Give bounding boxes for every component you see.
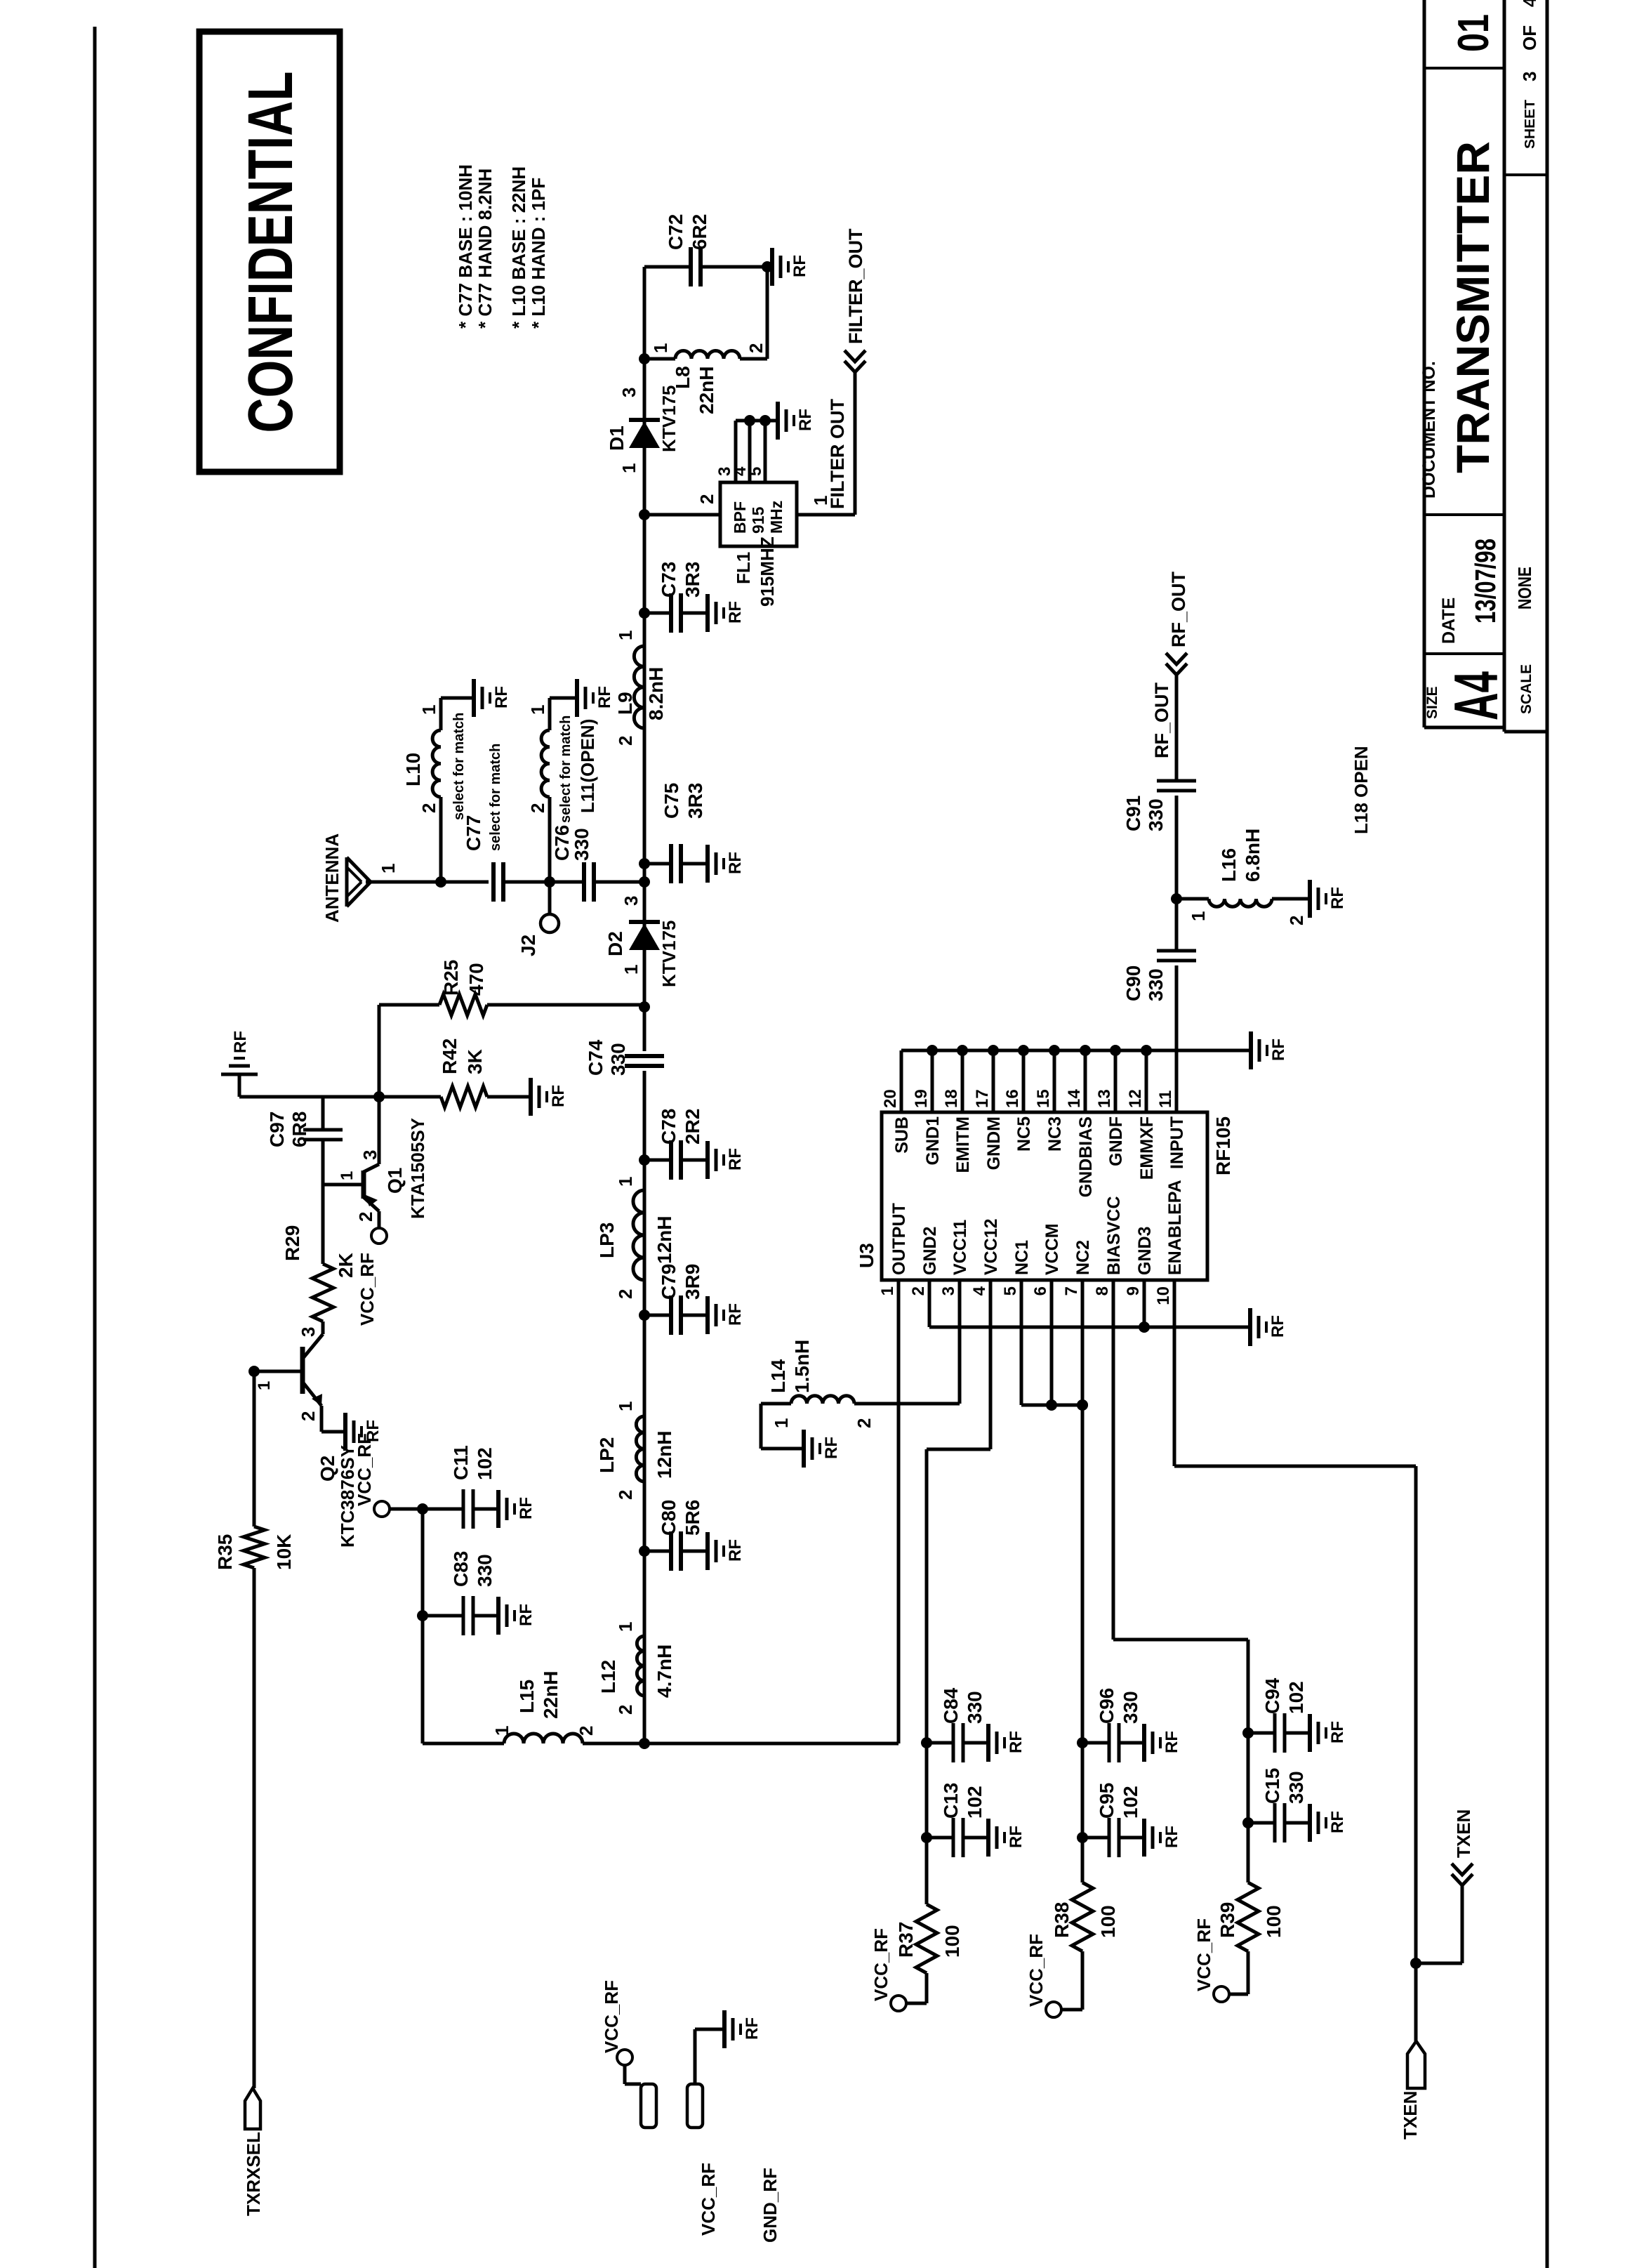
U3 pin 17 GNDM — [992, 1050, 995, 1112]
CONFIDENTIAL stamp box — [199, 32, 340, 472]
svg-text:2: 2 — [615, 1705, 636, 1715]
svg-text:L9: L9 — [614, 692, 636, 715]
svg-text:22nH: 22nH — [540, 1671, 562, 1719]
svg-text:915: 915 — [749, 506, 767, 534]
capacitor C97 6R8 series — [321, 1097, 325, 1130]
svg-text:1: 1 — [771, 1418, 792, 1428]
svg-text:C13: C13 — [940, 1783, 962, 1819]
inductor L11 OPEN select for match — [541, 730, 550, 797]
svg-text:RF: RF — [517, 1604, 536, 1626]
svg-text:C94: C94 — [1261, 1677, 1283, 1714]
svg-text:6R8: 6R8 — [289, 1112, 310, 1147]
svg-text:CONFIDENTIAL: CONFIDENTIAL — [236, 72, 306, 433]
power VCC_RF bead — [617, 2050, 632, 2065]
svg-text:A4: A4 — [1441, 671, 1511, 720]
svg-text:3: 3 — [1519, 72, 1540, 81]
svg-text:330: 330 — [607, 1043, 629, 1076]
inductor L15 22nH — [423, 1742, 504, 1746]
wire ENABLEPA pin10 to TXEN — [1174, 1465, 1416, 1468]
wire INPUT pin11 to RF_OUT — [1175, 965, 1179, 1112]
node L16 tap — [1171, 893, 1182, 904]
svg-text:BPF: BPF — [731, 501, 749, 534]
svg-text:6R2: 6R2 — [689, 214, 710, 250]
svg-text:12nH: 12nH — [654, 1431, 675, 1479]
svg-text:10K: 10K — [273, 1534, 295, 1570]
svg-text:VCC_RF: VCC_RF — [1193, 1918, 1214, 1991]
svg-text:C79: C79 — [658, 1264, 679, 1300]
svg-text:RF: RF — [1328, 887, 1347, 909]
inductor L9 8.2nH — [634, 646, 644, 728]
svg-text:GNDM: GNDM — [984, 1116, 1004, 1170]
net label TXEN — [1452, 1874, 1473, 1885]
svg-text:1: 1 — [491, 1726, 512, 1736]
resistor R29 2K — [312, 1264, 333, 1321]
svg-text:NC2: NC2 — [1073, 1240, 1093, 1275]
svg-text:VCC_RF: VCC_RF — [357, 1253, 378, 1326]
svg-text:TRANSMITTER: TRANSMITTER — [1447, 141, 1499, 473]
svg-text:RF_OUT: RF_OUT — [1168, 571, 1189, 647]
svg-text:INPUT: INPUT — [1167, 1116, 1187, 1169]
svg-text:RF: RF — [726, 1148, 745, 1171]
antenna symbol — [345, 857, 349, 906]
resistor R25 470 — [487, 1003, 644, 1007]
U3 pin 4 VCC12 — [989, 1280, 993, 1449]
svg-text:RF: RF — [595, 686, 614, 708]
svg-text:12nH: 12nH — [654, 1216, 675, 1264]
svg-text:RF: RF — [726, 1303, 745, 1326]
svg-text:GND_RF: GND_RF — [760, 2168, 781, 2243]
svg-text:15: 15 — [1034, 1089, 1053, 1108]
svg-text:11: 11 — [1156, 1090, 1175, 1108]
svg-text:3: 3 — [939, 1286, 958, 1295]
wire bias corner link y540 — [378, 1005, 381, 1164]
svg-text:5: 5 — [1001, 1286, 1020, 1295]
capacitor C11 102 — [423, 1508, 463, 1511]
svg-text:2: 2 — [527, 803, 548, 813]
svg-text:4: 4 — [970, 1286, 989, 1295]
svg-text:R29: R29 — [281, 1225, 303, 1261]
svg-text:R39: R39 — [1216, 1902, 1238, 1938]
node L10 tap — [435, 876, 446, 888]
svg-text:2: 2 — [576, 1726, 597, 1736]
svg-text:1: 1 — [618, 463, 639, 473]
capacitor C15 330 — [1242, 1817, 1254, 1828]
svg-text:5R6: 5R6 — [682, 1500, 703, 1536]
capacitor C78 shunt — [639, 1154, 650, 1166]
svg-text:KTA1505SY: KTA1505SY — [407, 1118, 428, 1219]
svg-text:2: 2 — [745, 343, 767, 353]
svg-text:7: 7 — [1062, 1286, 1081, 1295]
svg-text:1: 1 — [878, 1286, 897, 1295]
title block separator SCALE/SHEET — [1504, 173, 1547, 176]
svg-text:330: 330 — [1145, 798, 1167, 831]
title block row A outline — [1423, 0, 1426, 727]
svg-text:1: 1 — [418, 705, 439, 715]
svg-text:3K: 3K — [464, 1049, 486, 1074]
svg-text:RF: RF — [492, 686, 511, 708]
svg-text:C15: C15 — [1261, 1768, 1283, 1804]
svg-text:VCCM: VCCM — [1042, 1223, 1062, 1275]
wire L11 branch — [548, 797, 552, 882]
diode D1 KTV175 — [629, 421, 660, 448]
svg-text:J2: J2 — [517, 935, 539, 956]
svg-text:3R3: 3R3 — [684, 783, 706, 819]
svg-text:12: 12 — [1126, 1089, 1145, 1108]
svg-text:D1: D1 — [606, 426, 628, 451]
capacitor C96 330 — [1077, 1737, 1088, 1748]
U3 pin 6 VCCM — [1050, 1280, 1054, 1405]
U3 pin 14 GNDBIAS — [1084, 1050, 1087, 1112]
svg-text:GNDBIAS: GNDBIAS — [1076, 1116, 1096, 1197]
svg-text:3: 3 — [298, 1327, 319, 1337]
U3 pin 20 SUB — [900, 1050, 903, 1112]
svg-text:MHz: MHz — [767, 501, 785, 534]
ground RF at right bus — [1249, 1031, 1253, 1069]
svg-text:ANTENNA: ANTENNA — [321, 833, 343, 923]
svg-text:GND2: GND2 — [920, 1227, 940, 1275]
capacitor C91 330 series — [1157, 789, 1196, 793]
input port TXRXSEL — [245, 2088, 260, 2129]
svg-text:2: 2 — [298, 1411, 319, 1421]
wire OUTPUT pin1 route — [644, 1742, 899, 1746]
svg-text:NC1: NC1 — [1012, 1240, 1032, 1275]
ground GND_RF bead — [687, 2084, 703, 2128]
capacitor C76 series 330 — [582, 862, 586, 902]
power VCC_RF feeding R38 — [1046, 2002, 1061, 2017]
svg-text:330: 330 — [474, 1554, 496, 1587]
node L15 L12 OUTPUT junction — [639, 1738, 650, 1749]
node antenna tap on rail — [639, 876, 650, 888]
svg-text:1: 1 — [615, 631, 636, 640]
node J2 and L11 tap — [544, 876, 555, 888]
svg-text:102: 102 — [1285, 1681, 1307, 1714]
svg-text:2: 2 — [418, 803, 439, 813]
svg-text:3: 3 — [618, 388, 639, 397]
capacitor C94 102 — [1242, 1727, 1254, 1739]
capacitor C74 series 330 — [625, 1064, 664, 1068]
svg-text:RF: RF — [231, 1031, 250, 1053]
wire FL1 pin1 to FILTER_OUT — [797, 513, 855, 517]
svg-text:VCC_RF: VCC_RF — [1026, 1934, 1047, 2007]
svg-text:RF: RF — [549, 1085, 568, 1107]
ground RF sideways near C97 — [221, 1073, 258, 1076]
svg-text:4: 4 — [1519, 0, 1540, 7]
svg-text:L12: L12 — [597, 1660, 619, 1694]
U3 pin 3 VCC11 — [958, 1280, 962, 1404]
svg-text:C72: C72 — [665, 214, 687, 250]
transistor Q2 KTC3876SY NPN — [300, 1347, 305, 1394]
svg-text:RF: RF — [1328, 1811, 1347, 1833]
svg-text:17: 17 — [973, 1089, 992, 1108]
svg-text:R38: R38 — [1051, 1902, 1073, 1938]
wire NC1 VCCM NC2 link — [1021, 1404, 1082, 1407]
svg-text:VCC11: VCC11 — [950, 1220, 970, 1275]
svg-text:VCC12: VCC12 — [981, 1218, 1001, 1275]
U3 pin 18 EMITM — [961, 1050, 964, 1112]
capacitor C77 series select for match — [491, 862, 496, 902]
wire FL1 pin2 from rail — [639, 509, 650, 520]
svg-text:RF: RF — [822, 1437, 841, 1459]
U3 pin 10 ENABLEPA — [1173, 1280, 1176, 1466]
svg-text:1: 1 — [650, 343, 671, 353]
svg-text:4.7nH: 4.7nH — [654, 1644, 675, 1698]
svg-text:330: 330 — [964, 1691, 986, 1724]
svg-text:1: 1 — [527, 705, 548, 715]
U3 pin 19 GND1 — [931, 1050, 934, 1112]
svg-text:10: 10 — [1154, 1286, 1173, 1305]
svg-text:LP3: LP3 — [596, 1222, 618, 1258]
svg-text:TXEN: TXEN — [1453, 1809, 1474, 1858]
node C72/L8 junction — [762, 261, 773, 272]
svg-text:ENABLEPA: ENABLEPA — [1165, 1180, 1185, 1275]
inductor LP2 12nH — [636, 1416, 644, 1482]
svg-text:select for match: select for match — [488, 744, 503, 851]
svg-text:VCC_RF: VCC_RF — [698, 2163, 719, 2236]
svg-text:NC5: NC5 — [1014, 1116, 1034, 1152]
wire L10 branch — [439, 797, 443, 882]
svg-text:C80: C80 — [658, 1500, 679, 1536]
svg-text:6: 6 — [1031, 1286, 1050, 1295]
svg-text:NONE: NONE — [1514, 567, 1535, 609]
capacitor C72 — [689, 247, 693, 286]
inductor LP3 12nH — [633, 1190, 644, 1280]
svg-text:C83: C83 — [450, 1551, 472, 1587]
svg-text:RF: RF — [1269, 1039, 1288, 1061]
svg-text:2: 2 — [615, 736, 636, 746]
wire R29 to Q2 collector — [321, 1321, 325, 1334]
svg-text:1: 1 — [255, 1381, 274, 1390]
capacitor C73 shunt — [639, 607, 650, 619]
U3 pin 15 NC3 — [1053, 1050, 1056, 1112]
svg-text:C78: C78 — [658, 1109, 679, 1145]
svg-text:330: 330 — [1120, 1691, 1141, 1724]
svg-text:2: 2 — [909, 1286, 928, 1295]
svg-text:100: 100 — [941, 1925, 963, 1958]
resistor R42 3K — [379, 1095, 441, 1099]
svg-text:RF: RF — [726, 601, 745, 624]
svg-text:OUTPUT: OUTPUT — [889, 1203, 909, 1275]
svg-text:C91: C91 — [1122, 796, 1144, 831]
svg-text:8.2nH: 8.2nH — [645, 667, 667, 720]
svg-text:2: 2 — [1286, 916, 1307, 925]
svg-text:1: 1 — [615, 1402, 636, 1411]
svg-text:FL1: FL1 — [733, 552, 754, 584]
svg-text:L16: L16 — [1218, 848, 1240, 882]
ground RF at FL1 pins — [776, 402, 780, 440]
svg-text:Q2: Q2 — [317, 1456, 338, 1482]
svg-text:RF: RF — [726, 1539, 745, 1562]
svg-text:2: 2 — [615, 1490, 636, 1500]
svg-text:GNDF: GNDF — [1106, 1116, 1126, 1166]
off-page connector RF_OUT — [1166, 664, 1187, 675]
transistor Q1 KTA1505SY PNP — [362, 1171, 366, 1199]
svg-text:DOCUMENT NO.: DOCUMENT NO. — [1419, 361, 1439, 499]
svg-text:RF: RF — [517, 1497, 536, 1519]
svg-text:C76: C76 — [551, 825, 573, 861]
svg-text:RF: RF — [1007, 1826, 1026, 1848]
svg-text:330: 330 — [1285, 1771, 1307, 1804]
U3 pin 8 BIASVCC — [1112, 1280, 1115, 1640]
svg-text:* L10 HAND : 1PF: * L10 HAND : 1PF — [528, 178, 549, 329]
wire BIASVCC pin8 to R39 supply — [1113, 1638, 1248, 1642]
svg-text:D2: D2 — [604, 931, 626, 956]
svg-text:2: 2 — [696, 494, 717, 504]
svg-text:U3: U3 — [856, 1243, 877, 1268]
svg-text:select for match: select for match — [451, 713, 467, 820]
svg-text:KTV175: KTV175 — [658, 385, 679, 452]
wire C72 branch down — [644, 265, 691, 269]
svg-text:1: 1 — [615, 1177, 636, 1187]
svg-text:RF: RF — [790, 255, 809, 277]
svg-text:SCALE: SCALE — [1518, 664, 1534, 714]
svg-text:102: 102 — [1120, 1786, 1141, 1819]
diode D2 KTV175 — [629, 923, 660, 950]
inductor L16 6.8nH — [1176, 897, 1209, 901]
ground RF at Q2 emitter — [343, 1413, 347, 1451]
wire antenna feed down — [366, 881, 489, 884]
ground RF at L16 — [1308, 880, 1312, 918]
svg-text:C75: C75 — [661, 783, 682, 819]
page border top — [93, 27, 97, 2268]
svg-text:1: 1 — [1188, 911, 1209, 921]
wire main RF rail — [643, 1071, 647, 1743]
svg-text:TXEN: TXEN — [1400, 2091, 1421, 2140]
svg-text:L18 OPEN: L18 OPEN — [1351, 746, 1372, 834]
svg-text:FILTER_OUT: FILTER_OUT — [845, 228, 866, 344]
svg-text:8: 8 — [1093, 1286, 1112, 1295]
svg-text:C95: C95 — [1096, 1783, 1118, 1819]
power VCC_RF feeding R37 — [891, 1996, 906, 2011]
svg-text:1.5nH: 1.5nH — [791, 1340, 813, 1393]
U3 pin 12 EMMXF — [1145, 1050, 1148, 1112]
wire VCCM supply row — [1081, 1280, 1085, 1883]
svg-text:19: 19 — [912, 1089, 931, 1108]
power VCC_RF feeding R39 — [1214, 1986, 1229, 2002]
svg-text:13: 13 — [1095, 1089, 1114, 1108]
node L8 on rail — [639, 353, 650, 364]
svg-text:13/07/98: 13/07/98 — [1469, 539, 1501, 624]
svg-text:18: 18 — [942, 1089, 961, 1108]
connector J2 — [548, 882, 552, 915]
svg-text:C84: C84 — [940, 1687, 962, 1724]
U3 pin 13 GNDF — [1114, 1050, 1118, 1112]
svg-text:* C77 BASE : 10NH: * C77 BASE : 10NH — [455, 164, 476, 329]
capacitor C95 102 — [1077, 1832, 1088, 1843]
svg-text:RF105: RF105 — [1212, 1116, 1234, 1175]
svg-text:EMITM: EMITM — [953, 1116, 973, 1173]
U3 pin 5 NC1 — [1020, 1280, 1023, 1405]
resistor R39 100 — [1247, 1951, 1250, 1994]
svg-text:SUB: SUB — [892, 1116, 912, 1154]
svg-text:C97: C97 — [266, 1112, 288, 1147]
svg-text:VCC_RF: VCC_RF — [601, 1980, 622, 2053]
capacitor C83 330 — [423, 1614, 463, 1618]
svg-text:RF: RF — [726, 852, 745, 874]
svg-text:SIZE: SIZE — [1424, 686, 1440, 719]
filter FL1 BPF 915MHz box — [720, 482, 797, 546]
svg-text:OF: OF — [1519, 25, 1540, 51]
FL1 pins 3 4 5 to ground bus — [734, 421, 738, 482]
off-page connector FILTER_OUT — [844, 361, 866, 372]
svg-text:R25: R25 — [440, 960, 462, 996]
inductor L14 1.5nH — [791, 1396, 854, 1404]
svg-text:C11: C11 — [450, 1445, 472, 1480]
svg-text:L14: L14 — [767, 1359, 789, 1393]
svg-text:GND3: GND3 — [1135, 1227, 1155, 1275]
svg-text:RF: RF — [796, 409, 815, 431]
svg-text:RF: RF — [1007, 1731, 1026, 1753]
page border bottom — [1546, 0, 1549, 2268]
inductor L10 select for match — [432, 730, 441, 797]
svg-text:C73: C73 — [658, 562, 679, 598]
svg-text:GND1: GND1 — [923, 1116, 943, 1166]
wire VCC12 pin4 to R37 supply — [927, 1448, 990, 1451]
svg-text:2: 2 — [615, 1289, 636, 1299]
svg-text:100: 100 — [1263, 1905, 1285, 1938]
svg-text:RF_OUT: RF_OUT — [1151, 682, 1172, 758]
svg-text:* L10 BASE : 22NH: * L10 BASE : 22NH — [508, 166, 529, 329]
svg-text:C74: C74 — [585, 1039, 606, 1076]
svg-text:1: 1 — [338, 1171, 357, 1180]
svg-text:L10: L10 — [402, 753, 424, 786]
wire L8 to C72 ground node — [766, 267, 769, 359]
ground RF at left bus — [1248, 1308, 1252, 1346]
node R25 tap on rail — [639, 1001, 650, 1013]
wire L14 to VCC11 pin3 — [854, 1402, 960, 1406]
node C83 tap — [417, 1610, 428, 1621]
svg-text:330: 330 — [1145, 968, 1167, 1001]
input port TXEN — [1407, 2041, 1425, 2088]
capacitor C13 102 — [921, 1832, 932, 1843]
wire U3 left ground bus — [929, 1326, 1250, 1329]
svg-text:L15: L15 — [516, 1680, 538, 1713]
svg-text:NC3: NC3 — [1045, 1116, 1065, 1152]
IC U3 RF105 body — [882, 1112, 1207, 1280]
wire supply line to L15 — [421, 1509, 425, 1743]
title block row B outline — [1503, 0, 1506, 732]
U3 pin 9 GND3 — [1143, 1280, 1146, 1327]
U3 pin 16 NC5 — [1022, 1050, 1026, 1112]
svg-text:RF: RF — [1162, 1826, 1181, 1848]
svg-text:VCC_RF: VCC_RF — [870, 1928, 891, 2001]
svg-text:Q1: Q1 — [384, 1168, 406, 1194]
U3 pin 2 GND2 — [928, 1280, 931, 1327]
svg-text:BIASVCC: BIASVCC — [1104, 1196, 1124, 1275]
svg-text:102: 102 — [964, 1786, 986, 1819]
svg-text:SHEET: SHEET — [1523, 100, 1538, 149]
svg-text:330: 330 — [571, 828, 592, 861]
svg-text:RF: RF — [1328, 1721, 1347, 1743]
svg-text:EMMXF: EMMXF — [1137, 1116, 1157, 1180]
svg-text:5: 5 — [746, 467, 765, 476]
svg-text:KTV175: KTV175 — [658, 921, 679, 987]
svg-text:3: 3 — [359, 1150, 380, 1160]
resistor R37 100 — [925, 1973, 929, 2003]
svg-text:22nH: 22nH — [696, 367, 717, 414]
svg-text:TXRXSEL: TXRXSEL — [243, 2132, 264, 2216]
capacitor C84 330 — [921, 1737, 932, 1748]
resistor R38 100 — [1081, 1951, 1085, 2010]
svg-text:470: 470 — [465, 963, 487, 996]
wire R35 rail to Q2 base — [253, 1568, 256, 2088]
svg-text:L11(OPEN): L11(OPEN) — [577, 719, 598, 813]
svg-text:20: 20 — [881, 1089, 900, 1108]
resistor R35 10K — [244, 1527, 265, 1568]
ground RF at L14 — [802, 1430, 806, 1468]
svg-text:C90: C90 — [1122, 965, 1144, 1001]
svg-text:2: 2 — [355, 1212, 376, 1222]
title block separator DATE/DOCUMENT — [1424, 513, 1504, 516]
